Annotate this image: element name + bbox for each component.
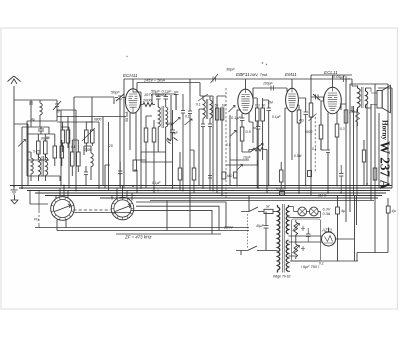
svg-text:2M: 2M [267,101,273,105]
wire (T3 core) [207,99,208,119]
tube ECL11 (envelope) [324,87,342,114]
trimmer capacitor (tone) [309,114,317,122]
wire (R14 leads) [311,97,324,196]
wire (ground bus 7) [150,200,374,202]
node (junction) [202,187,204,189]
resistor R30 (slim box) [215,108,218,120]
wire (right rail a) [345,79,347,222]
node (junction) [366,183,368,185]
resistor R9 (box) [77,152,81,166]
wire (EM11 side leads) [285,105,299,188]
component (bus block) [280,192,285,196]
wire (ECL11 anode to rail) [332,75,334,87]
variable capacitor CV2 (spokes) [111,197,134,220]
wire (ground bus 1) [10,185,392,187]
wire (AZ11 leads) [329,228,355,240]
node (junction) [13,185,15,187]
wire (EBF11 cathode drops) [237,110,249,186]
node (junction) [63,185,65,187]
resistor R6 (box under tube) [144,128,148,142]
resistor R8 (box) [71,152,75,166]
resistor R15 (cathode box) [335,124,339,137]
node (junction) [98,187,100,189]
trimmer arrow (T2 sec) [171,118,181,127]
transformer T3 primary (IF2 coil) [203,96,205,124]
svg-text:Horny: Horny [381,120,389,140]
svg-text:Si: Si [266,205,270,209]
capacitor C23 (dropper) [306,228,311,242]
capacitor C22 (band) [339,165,344,193]
svg-text:50: 50 [262,104,266,108]
svg-text:0.1: 0.1 [71,145,76,149]
resistor R2 (box) [44,141,48,154]
wire (C16 riser) [337,196,339,261]
wire (to boxes) [38,134,45,160]
capacitor C7 [170,110,175,188]
resistor R12 (box) [261,108,265,121]
wire (coil bottom join) [27,121,57,176]
transformer T2 secondary (IF coil) [166,107,168,132]
wire (cap top rail) [152,94,176,110]
trimmer arrow (R21) [82,128,95,141]
wire (R8 R9 leads) [72,140,78,176]
node (junction) [157,190,159,192]
trimmer arrow (antenna) [18,140,26,147]
tube ECL11 (electrodes) [328,88,337,111]
svg-text:50: 50 [215,104,219,108]
node (junction) [172,187,174,189]
capacitor C26 (blob2) [188,94,192,198]
lamp LP1 (cross) [299,208,305,214]
wire (gang solid link) [75,212,132,214]
wire (CV2 takeoff staircase) [131,202,226,234]
svg-text:0.1: 0.1 [319,262,324,266]
svg-text:0.1: 0.1 [196,103,201,107]
wire (C17 riser) [387,198,389,253]
potentiometer (volume) [250,144,264,153]
node (junction) [75,190,77,192]
coil L1 (antenna coil) [40,100,42,121]
wire (PT secondary taps) [289,207,322,272]
wire (gang link dashed) [74,209,111,211]
svg-text:30pF: 30pF [226,68,235,72]
wire (h at 176) [27,176,60,181]
svg-text:W 237 A: W 237 A [378,141,393,190]
svg-text:245V ~ 5mA: 245V ~ 5mA [143,79,165,83]
svg-text:1M: 1M [222,104,227,108]
switch Pu (wave change) [35,191,45,228]
wire (anode link y82) [137,83,203,97]
node (junction) [236,185,238,187]
capacitor C13 (0.05uF on rail) [340,76,350,82]
capacitor C10 [263,100,271,186]
capacitor C25 (blob) [181,94,185,191]
wire (grid feed line y97) [74,97,114,152]
transformer T2 primary (IF coil) [158,107,160,132]
wire (T3 top feeds) [199,96,213,191]
wire (left drop to gang) [30,191,48,205]
TEXT-LABELS [31,68,397,279]
wire (x105 x108 drops) [105,122,110,191]
capacitor C6 (0.1uF) [164,94,169,107]
wire (right rail d) [356,109,358,195]
transformer PT secondary [286,205,288,272]
wire (OT core) [362,87,364,108]
node (junction) [140,187,142,189]
capacitor C11 [299,98,308,186]
svg-text:100pF: 100pF [263,82,274,86]
resistor R3 (box) [53,146,57,158]
svg-text:0.1: 0.1 [185,115,190,119]
svg-text:0.5M: 0.5M [294,154,302,158]
svg-text:0.1µF: 0.1µF [231,116,241,120]
trimmer arrow (mid) [185,119,193,125]
wire (antenna to input coil) [14,99,31,101]
svg-text:EBF11: EBF11 [236,72,250,77]
resistor R24 (band box) [178,168,182,180]
wire (CV2 top feeds) [112,186,132,201]
wire (EBF to EM coupling y88) [253,88,287,92]
wire (band switch row 1) [57,117,126,186]
wire (HT twin drop) [355,196,357,261]
wire (R3 R4 drops) [49,134,62,166]
wire (stage2 mid line) [226,152,258,165]
resistor R29 (zigzag under OT) [356,110,360,126]
resistor R5 (zigzag 2000) [141,103,155,107]
wire (x124 drop) [123,95,125,188]
wire (right rail h) [378,113,380,188]
svg-text:0.3: 0.3 [340,127,345,131]
resistor R26 (band box) [279,170,283,182]
resistor R13 (box) [297,110,301,123]
node (junction) [21,187,23,189]
svg-text:2000: 2000 [83,148,92,152]
wire (right rail f) [370,104,372,200]
wire (ground bus 4) [35,192,386,194]
svg-text:EM11: EM11 [285,72,297,77]
trimmer arrow (band center) [237,165,243,171]
wire (T2 bottoms) [158,132,166,186]
svg-text:0.5: 0.5 [246,130,252,134]
node (junction) [298,192,300,194]
capacitor C9 (0.1uF) [240,118,245,127]
node (junction) [257,187,259,189]
wire (screen drop x76) [75,110,77,191]
dropper block (outline) [292,219,321,261]
tube EBF11 (envelope) [238,89,253,114]
variable capacitor CV2 (inner ring) [114,200,131,217]
node (speck a) [262,62,264,64]
trimmer capacitor (30pF on rail) [211,74,219,83]
speaker (magnet) [377,91,382,109]
capacitor C18 (band) [84,166,88,186]
node (junction) [284,187,286,189]
dark mark (5u8) [167,138,178,144]
node (junction) [132,185,134,187]
wire (PT core) [282,204,284,273]
variable capacitor CV1 (spokes) [51,197,74,220]
transformer OT primary (output) [358,86,361,111]
svg-text:l 6µF 760 l: l 6µF 760 l [301,265,319,269]
capacitor C27 (100pF) [271,86,274,91]
wire (tube cathode drops) [130,92,141,188]
wire (CV1 bottom stub) [57,220,66,231]
wire (dropper links) [301,226,305,251]
wire (R16 leads) [321,101,324,150]
svg-text:0.1µF: 0.1µF [152,181,161,185]
svg-text:0.1: 0.1 [312,147,317,151]
svg-text:40µF: 40µF [256,224,265,228]
capacitor C20 (AVC) [253,121,261,188]
trimmer arrow (EBF grid) [229,106,236,113]
resistor R20 (box) [66,130,70,143]
wire (ground bus 2) [19,187,392,189]
variable capacitor CV1 (vane) [55,204,71,212]
wire (EM11 anode to rail) [291,79,293,160]
resistor R21 (box) [85,130,89,143]
wire (CV1 top feeds) [56,186,68,199]
capacitor C5 (50uF) [156,94,161,107]
svg-text:220V: 220V [223,226,233,230]
wire (R26 leads) [280,162,282,188]
wire (R21 R22 leads) [86,117,92,153]
ground (chassis earth 2) [11,186,23,204]
node (junction) [340,192,342,194]
node (junction) [119,185,121,187]
wire (speaker leads) [371,88,377,108]
capacitor (antenna series) [29,102,33,127]
capacitor (ECH11 grid, 50pF) [115,94,126,110]
wire (R11 R12 leads) [253,89,263,188]
wire (x137 drop) [134,170,137,193]
resistor R25 (band box) [192,168,196,180]
wire (OT top/bottom links) [352,79,371,112]
wire (right rail c) [353,106,355,196]
tube EM11 (electrodes) [288,89,295,108]
ground (antenna earth) [11,186,18,194]
lamp LP2 (cross) [311,208,317,214]
wire (HT top rail) [124,79,352,95]
resistor R11 (box) [255,108,259,121]
wire (rail drop x190) [189,79,191,94]
resistor R14 (grid leak box) [309,103,313,117]
coil L2 (oscillator padder) [31,152,33,181]
wire (x311 drop) [310,87,312,99]
svg-text:5000: 5000 [305,130,313,134]
tube EBF11 (electrodes) [241,89,249,110]
node (junction) [182,190,184,192]
transformer T1 (IF coil a) [39,154,41,181]
capacitor (T3 tuning b) [208,124,212,191]
wire (bottom line b) [57,230,249,232]
svg-text:ECH11: ECH11 [123,73,138,78]
resistor R35 (small box band) [234,172,237,178]
wire (x190 drop) [189,198,191,228]
svg-text:0.05µF: 0.05µF [333,75,346,79]
wire (rail over ECL11) [311,75,352,87]
wire (EBF11 anode to HT rail) [245,79,247,89]
wire (grid riser x120) [114,98,120,186]
wire (right rail b) [350,84,375,212]
node (junction) [336,185,338,187]
variable capacitor CV2 (outer ring) [111,197,134,220]
wire (switch gang link dashed) [247,214,249,248]
svg-text:112 B: 112 B [318,194,327,198]
switch S1a (mains) [241,207,264,212]
capacitor C14 (4uF) [321,139,330,193]
wire (input top rail) [31,100,57,104]
svg-text:0.5: 0.5 [226,143,231,147]
svg-text:50pF: 50pF [111,91,120,95]
resistor R33 (small box) [308,171,312,177]
capacitor C21 (band) [208,176,212,179]
wire (band switch row 2) [57,122,99,188]
capacitor C17 (4uF box right) [386,206,390,213]
node (junction) [60,185,62,187]
svg-text:5-25: 5-25 [33,150,40,154]
variable capacitor CV2 (vane) [115,204,131,212]
svg-text:6.3V: 6.3V [323,208,331,212]
wire (ground bus 3) [27,190,390,192]
svg-text:0.3A: 0.3A [323,212,331,216]
svg-text:0.1µF: 0.1µF [272,115,281,119]
variable capacitor CV1 (inner ring) [54,200,72,218]
capacitor C2 [38,127,44,134]
wire (lamp rail) [294,207,321,218]
resistor R31 (slim box) [220,108,223,120]
wire (R25 leads) [190,150,194,193]
trimmer arrow (dropper a) [293,224,300,232]
resistor R16 (box) [319,125,323,139]
transformer T1 (IF coil b) [46,154,48,181]
capacitor C19 (band) [118,162,122,188]
transformer OT secondary (voice coil) [366,88,368,108]
wire (R13 lead down) [298,123,300,193]
resistor R10 (grid box) [240,127,244,141]
node (junction) [268,185,270,187]
wire (right edge rails) [375,84,392,188]
wire (screen dashed) [225,88,227,198]
capacitor C15 (mains) [264,212,269,251]
resistor R18 (dropper zigzag) [294,242,298,259]
resistor R23 (box) [133,160,137,171]
node (junction) [212,190,214,192]
wire (screen drop x69) [61,127,69,188]
node (junction) [327,192,329,194]
svg-text:25: 25 [108,144,113,148]
wire (right rail e) [366,104,368,184]
tube ECH11 (envelope) [125,89,140,113]
svg-text:0.3: 0.3 [255,104,260,108]
coil L3 (osc) [91,146,93,172]
tube AZ11 (filament) [324,236,334,244]
wire (DC bottom rail) [290,253,388,262]
capacitor C12 (ECL11 grid) [311,94,324,101]
wire (h at 134) [27,127,49,134]
svg-text:250: 250 [348,110,355,114]
svg-text:10µF: 10µF [243,156,252,160]
wire (ground bus 5) [45,195,382,197]
tube AZ11 (envelope) [322,232,336,246]
wire (ECL11 cathode leads) [328,104,346,150]
wire (L3 leads) [84,146,91,180]
resistor R28 (box near OT) [344,110,348,123]
svg-text:AG: AG [298,119,304,123]
svg-text:30: 30 [56,110,60,114]
transformer T3 secondary (IF2 coil) [210,96,212,124]
svg-text:MO: MO [227,174,233,178]
wire (h at 160) [27,152,49,160]
svg-text:4µ: 4µ [31,118,35,122]
fuse Si [264,209,273,213]
wire (screen drop x61) [57,110,76,186]
tube EM11 (envelope) [286,88,299,111]
svg-text:8µF: 8µF [172,131,179,135]
wire (ground bus 6) [100,197,378,199]
svg-text:2000: 2000 [142,99,152,103]
resistor R32 (slim box right) [362,150,365,162]
wire (x171 drop) [166,95,171,140]
wire (bottom line a) [45,227,249,229]
node (junction) [305,185,307,187]
wire (left riser) [14,124,49,188]
wire (R24 leads) [179,152,181,191]
svg-text:Wtge 76-62: Wtge 76-62 [273,275,291,279]
wire (R6 R7 connections) [146,116,154,193]
svg-text:50µF: 50µF [151,90,160,94]
speaker (cone) [382,85,390,113]
svg-text:52WO: 52WO [276,188,286,192]
wire (pot leads) [230,115,267,193]
svg-text:50 mA: 50 mA [125,111,129,122]
node (speck b) [266,64,267,65]
wire (x217 x222 drops) [217,96,226,196]
switch S1b (mains) [236,246,264,251]
svg-text:5000: 5000 [166,122,174,126]
resistor R7 (box under tube) [152,128,156,142]
wire (stage1 mid horizontals) [136,152,173,162]
wire (T1 core) [42,156,43,176]
wire (T2 core) [162,106,163,128]
trimmer capacitor (input) [53,101,61,121]
wire (fuse to transformer) [264,212,278,251]
variable capacitor CV1 (outer ring) [51,197,75,221]
antenna [8,76,21,186]
trimmer capacitor (T3) [198,94,208,101]
capacitor C24 (0.1uF top) [174,92,179,110]
wire (bottom line c) [116,233,221,235]
lamp LP1 (dial) [298,207,307,216]
wire (R10 lead) [242,122,253,152]
svg-text:0.1µF: 0.1µF [162,90,172,94]
resistor R4 (box) [60,146,64,158]
svg-text:AZ11: AZ11 [321,228,333,233]
node (speck c) [126,56,127,57]
svg-text:80: 80 [46,136,50,140]
svg-text:ZF = 473 kHz: ZF = 473 kHz [124,235,152,240]
transformer PT primary [278,205,280,273]
resistor R22 (box) [91,130,95,143]
resistor R1 (box) [37,141,41,154]
wire (right rail g) [374,84,376,253]
svg-text:107V, 43mA: 107V, 43mA [144,93,165,97]
wire (R15 down) [336,137,338,186]
capacitor (T3 tuning a) [201,124,205,188]
trimmer arrow (EBF lower) [230,131,237,138]
wire (x167 drop) [166,201,168,231]
resistor R34 (small box band) [222,172,226,179]
wire (mains entry) [241,196,249,255]
